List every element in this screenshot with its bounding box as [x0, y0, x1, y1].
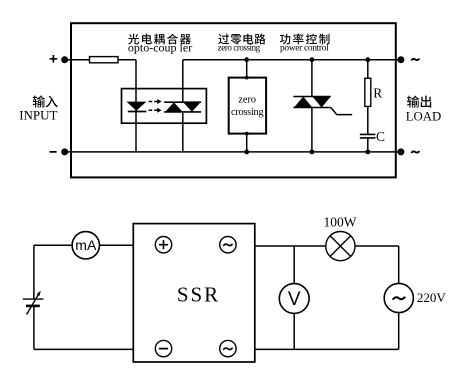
- svg-text:220V: 220V: [417, 290, 447, 305]
- svg-text:LOAD: LOAD: [406, 110, 442, 124]
- svg-text:SSR: SSR: [177, 283, 220, 307]
- svg-text:INPUT: INPUT: [19, 107, 57, 122]
- svg-text:V: V: [288, 289, 301, 310]
- svg-text:100W: 100W: [324, 214, 357, 229]
- svg-text:crossing: crossing: [231, 107, 263, 118]
- svg-text:power control: power control: [280, 43, 329, 53]
- svg-text:zero crossing: zero crossing: [218, 42, 261, 52]
- svg-text:R: R: [373, 86, 382, 101]
- svg-text:C: C: [376, 129, 385, 144]
- svg-text:zero: zero: [238, 94, 256, 105]
- svg-text:opto-coup ler: opto-coup ler: [128, 41, 192, 55]
- svg-text:mA: mA: [75, 237, 97, 253]
